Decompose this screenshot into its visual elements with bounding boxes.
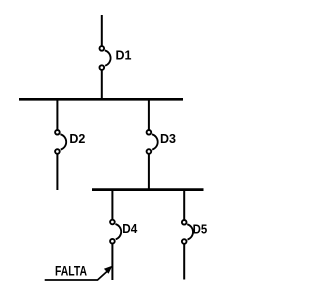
wire FALTA leader — [45, 271, 108, 280]
svg-text:D2: D2 — [69, 131, 85, 146]
svg-text:D4: D4 — [122, 221, 138, 236]
wire D5 tail — [183, 244, 185, 280]
breaker D4 — [110, 220, 121, 244]
wire bus 2 to D4 — [111, 190, 113, 219]
bus bar 2 — [92, 188, 204, 191]
breaker D2 — [55, 130, 66, 154]
bus bar 1 — [19, 98, 183, 101]
svg-text:FALTA: FALTA — [55, 262, 87, 278]
svg-text:D1: D1 — [116, 47, 132, 62]
breaker D1 — [100, 46, 111, 70]
breaker D5 — [182, 220, 193, 244]
svg-text:D3: D3 — [160, 131, 176, 146]
wire bus 1 to D3 — [148, 100, 150, 130]
svg-text:D5: D5 — [193, 222, 208, 237]
node FALTA arrowhead — [104, 266, 113, 274]
wire bus 1 to D2 — [56, 100, 58, 130]
breaker D3 — [147, 130, 158, 154]
wire bus 2 to D5 — [183, 190, 185, 219]
wire D4 tail — [111, 244, 113, 280]
wire D2 tail — [56, 154, 58, 190]
wire feeder top — [101, 15, 103, 46]
wire D1 to bus 1 — [101, 70, 103, 98]
wire D3 to bus 2 — [148, 154, 150, 189]
